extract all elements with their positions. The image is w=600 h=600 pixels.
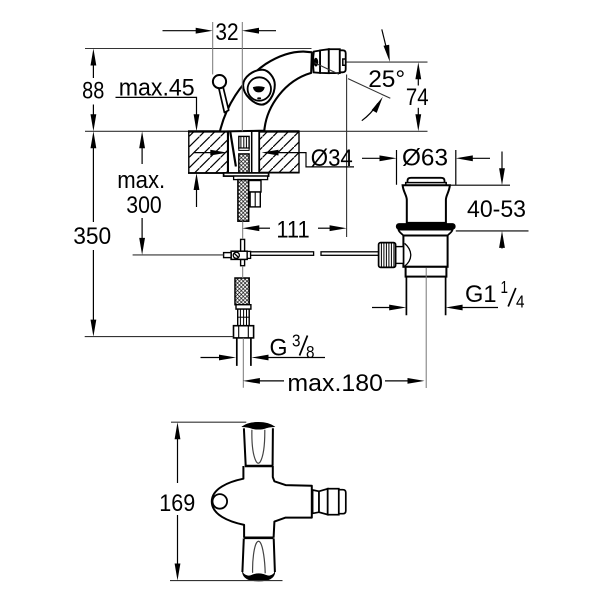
top view: lower handle — [242, 538, 275, 581]
drain bottom collar nut — [406, 267, 447, 277]
pop-up rod tee coupling — [224, 239, 251, 265]
aerator cone (side view) — [320, 49, 329, 73]
svg-text:169: 169 — [159, 490, 195, 517]
spray-height reference line (74 datum) — [317, 61, 428, 63]
svg-text:111: 111 — [276, 217, 309, 244]
extension line: aerator tip vertical — [346, 75, 348, 238]
drain upper bell — [403, 185, 450, 223]
svg-text:G1: G1 — [465, 281, 497, 308]
dimension 350 — [73, 131, 233, 336]
svg-text:8: 8 — [306, 342, 315, 362]
svg-text:G: G — [270, 334, 288, 361]
dimension max.45 with leader — [116, 74, 200, 207]
dimension 74 — [406, 62, 429, 131]
flexible supply hose (upper braided section) — [238, 180, 249, 222]
centerline: drain axis — [425, 268, 427, 388]
drain valve body — [403, 236, 447, 267]
svg-text:88: 88 — [82, 78, 104, 105]
hose end fitting band — [236, 305, 251, 309]
drain lower flange — [398, 230, 452, 236]
lever handle stem — [219, 87, 229, 113]
dimension G3/8 — [201, 331, 326, 362]
svg-text:Ø63: Ø63 — [402, 144, 448, 171]
svg-text:max.180: max.180 — [287, 370, 383, 397]
deck surface reference line — [85, 130, 428, 132]
svg-text:32: 32 — [215, 19, 238, 46]
dimension max.300 — [117, 131, 165, 255]
aerator ring (side view) — [313, 51, 320, 73]
top view: spout cylinder — [328, 489, 339, 515]
threaded stud through deck — [239, 136, 249, 173]
knurled rod knob on drain — [379, 243, 404, 268]
top view: spout cone — [319, 489, 328, 515]
drain pop-up cap dome — [406, 178, 447, 185]
faucet body (side view) — [220, 52, 312, 132]
svg-text:350: 350 — [73, 223, 111, 250]
top view: faucet body centre — [212, 466, 312, 538]
pop-up rod (slanted, inside shank) — [230, 132, 236, 167]
svg-text:max.45: max.45 — [119, 74, 195, 101]
temperature badge on body — [243, 70, 275, 105]
centerline: hose axis segments — [242, 221, 245, 387]
dimension 88 — [82, 49, 104, 132]
dimension 32 — [163, 19, 277, 46]
svg-text:3: 3 — [292, 331, 301, 351]
centerline: faucet axis (upper) — [241, 22, 243, 131]
svg-text:40-53: 40-53 — [467, 196, 526, 223]
dimension 169 (top view) — [159, 422, 282, 580]
hose connection nut — [234, 326, 254, 338]
G3/8 nipple pipe — [237, 338, 251, 366]
flexible supply hose (lower braided section) — [235, 278, 249, 305]
horizontal pop-up linkage rod (left segment) — [251, 252, 314, 256]
top view: spout aerator ring — [313, 490, 319, 513]
dimension diameter 63 — [362, 144, 490, 184]
lever handle ball — [213, 75, 226, 88]
dimension max.180 — [243, 370, 425, 397]
aerator end cap (side view) — [340, 50, 346, 72]
dimension 25 degrees — [315, 29, 406, 120]
dimension diameter 34 — [194, 145, 354, 172]
drain O-ring seal — [396, 223, 456, 230]
mounting nut blocks beside hose — [249, 181, 261, 207]
top reference line (88/350 datum) — [85, 48, 312, 50]
dimension G1 1/4 — [372, 277, 525, 312]
top view: lever ball seen from front — [213, 494, 228, 509]
mounting hole edges in deck — [228, 131, 259, 173]
svg-text:4: 4 — [516, 292, 525, 312]
dimension 40-53 — [449, 152, 529, 249]
aerator cylinder (side view) — [329, 49, 340, 73]
deck section right block — [259, 131, 300, 172]
deck section left block — [188, 131, 228, 173]
top view: upper handle — [242, 422, 274, 466]
svg-text:1: 1 — [501, 277, 509, 297]
drain tailpipe (G1 1/4) — [406, 277, 445, 316]
washer plates under deck — [224, 173, 269, 180]
svg-text:max.: max. — [117, 167, 165, 194]
thin rod extension line to left — [133, 254, 224, 256]
svg-text:300: 300 — [126, 192, 162, 219]
svg-text:25°: 25° — [368, 66, 405, 93]
top view: spout end cap — [339, 490, 346, 514]
centerline: extension line 32 left — [212, 22, 214, 74]
horizontal pop-up linkage rod (right segment) — [321, 252, 379, 256]
svg-text:74: 74 — [406, 84, 429, 111]
hose end ribbed sleeve — [238, 309, 250, 326]
dimension 111 — [242, 217, 346, 244]
svg-text:Ø34: Ø34 — [311, 145, 353, 172]
